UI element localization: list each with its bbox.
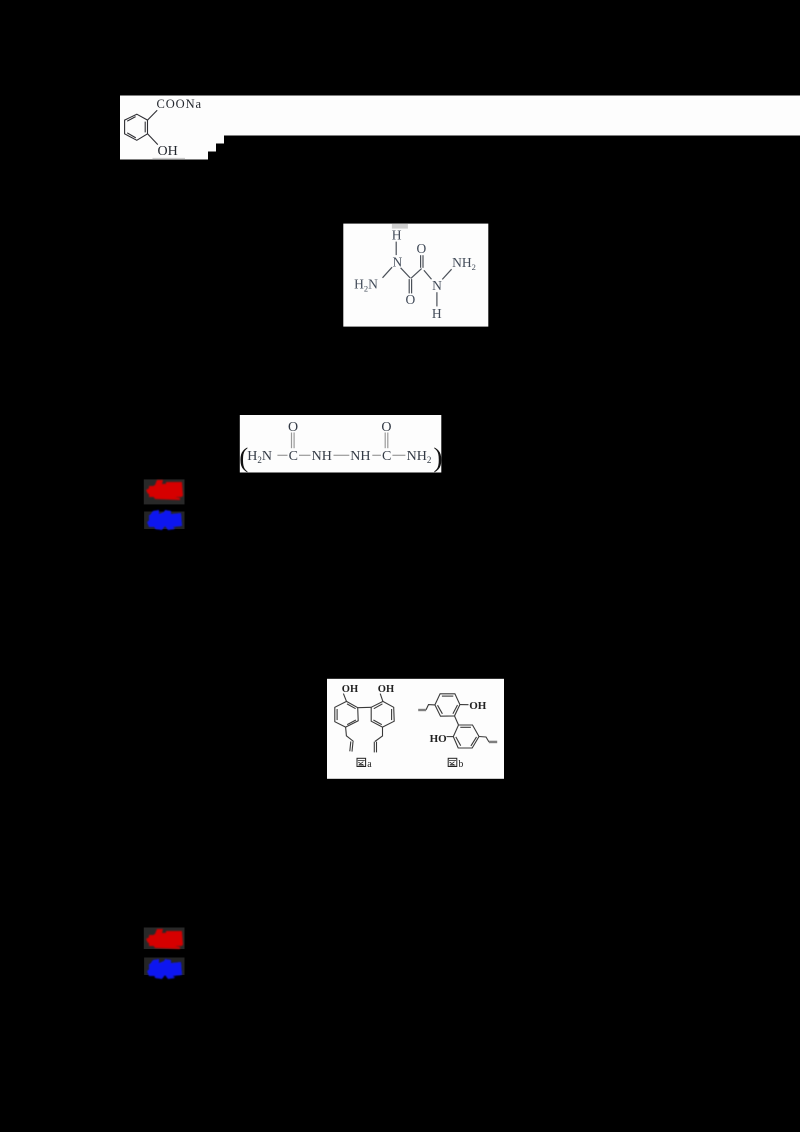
svg-text:): ): [434, 443, 443, 473]
faint underline under OH: [153, 157, 186, 159]
svg-text:O: O: [406, 292, 416, 307]
bond H-N vertical: [395, 242, 397, 256]
C1=O double bond: [408, 279, 410, 293]
benzene ring: [125, 114, 148, 140]
biphenyl bond fig a: [358, 706, 372, 708]
white strip top (stepped polygon): [120, 96, 800, 160]
svg-text:OH: OH: [378, 684, 394, 695]
blue label blob: [147, 510, 182, 530]
bond N to C1: [401, 268, 411, 278]
structure: sodium salicylate: [125, 110, 158, 144]
aromatic inner bond bottom-left: [127, 133, 136, 138]
svg-text:a: a: [367, 759, 372, 770]
white box 4 (magnolol / honokiol): [327, 679, 504, 779]
ring B2 (bottom of fig b): [453, 725, 479, 748]
svg-text:H: H: [432, 306, 442, 321]
bond OH a1: [343, 694, 346, 702]
bond C2 to N right: [424, 270, 432, 279]
svg-text:O: O: [417, 241, 427, 256]
bond OH a2: [380, 694, 383, 702]
label fig b: [448, 758, 463, 770]
svg-text:b: b: [458, 759, 463, 770]
bond OH b1: [460, 704, 469, 706]
svg-text:OH: OH: [469, 700, 487, 712]
red label blob: [146, 929, 183, 949]
ring B1 (top of fig b): [435, 694, 460, 716]
svg-text:OH: OH: [342, 684, 358, 695]
ring A2 (right of fig a): [371, 701, 394, 727]
svg-text:NH: NH: [350, 449, 370, 464]
C2=O double bond: [420, 255, 422, 268]
aromatic inner bond right: [144, 122, 146, 133]
bond ring to OH: [148, 134, 158, 145]
answer button 1 (red): [144, 479, 185, 530]
svg-text:N: N: [432, 278, 442, 293]
C=O double bond right: [384, 433, 386, 449]
svg-text:O: O: [381, 420, 391, 435]
svg-text:HO: HO: [430, 733, 448, 745]
C=O double bond left: [291, 433, 293, 449]
bond Nright to NH2: [442, 269, 451, 279]
white box 3 (biurea): [240, 415, 441, 473]
label fig a: [357, 758, 372, 770]
vinyl end bar left (fig b): [418, 709, 426, 711]
svg-text:C: C: [382, 449, 391, 464]
allyl right of fig a: [375, 727, 383, 741]
bond ring to COONa: [148, 110, 158, 120]
allyl of ring B1 (left): [426, 705, 435, 710]
blue label blob: [147, 959, 182, 979]
svg-text:O: O: [288, 420, 298, 435]
vinyl end bar right (fig b): [489, 741, 497, 744]
svg-text:H: H: [392, 228, 402, 243]
bond H2N to N: [383, 267, 393, 278]
bond C1-C2: [411, 269, 422, 279]
bond HO b2: [447, 736, 454, 738]
biphenyl bond fig b: [455, 716, 459, 725]
svg-text:N: N: [393, 254, 403, 269]
svg-text:C: C: [289, 449, 298, 464]
svg-text:COONa: COONa: [157, 97, 202, 111]
bond Nright-H vertical: [436, 292, 438, 306]
svg-text:OH: OH: [158, 144, 178, 159]
answer button 2 (red): [144, 928, 185, 980]
allyl of ring B2 (right): [479, 737, 489, 743]
aromatic inner bond top-left: [127, 117, 135, 122]
allyl left of fig a: [346, 727, 354, 741]
red label blob: [146, 480, 183, 500]
white box 2 (oxalyl dihydrazide): [343, 224, 488, 327]
single bonds (dashes): [277, 454, 287, 456]
gray smudge top: [392, 224, 408, 229]
svg-text:NH: NH: [312, 449, 332, 464]
ring A1 (left of fig a): [335, 701, 358, 727]
